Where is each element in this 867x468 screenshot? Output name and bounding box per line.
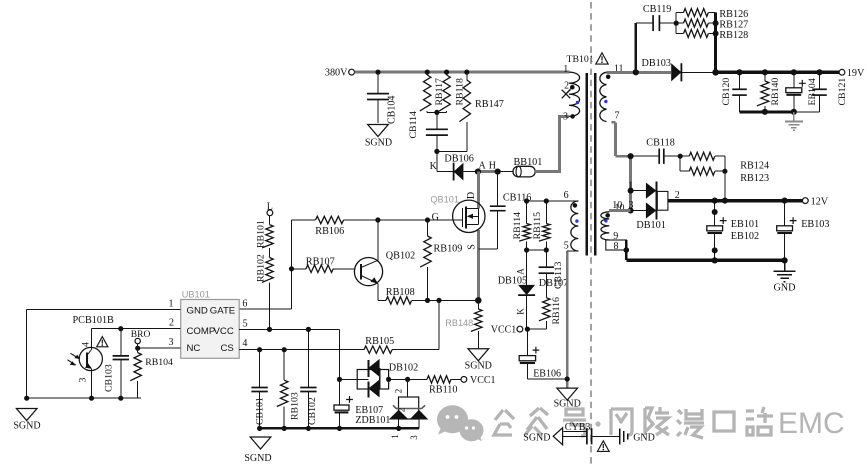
wire: CS sense down-left [438, 300, 440, 349]
svg-text:A: A [516, 268, 526, 275]
resistor RB117 [420, 72, 445, 112]
svg-text:RB103: RB103 [290, 392, 301, 420]
svg-text:CB121: CB121 [837, 78, 848, 106]
svg-text:3: 3 [169, 337, 174, 348]
node: trunk dots [713, 20, 719, 26]
node: rail junction RB147 [464, 70, 469, 75]
warning symbol (Y-cap) [598, 441, 610, 452]
optocoupler PCB101B [68, 315, 115, 398]
svg-text:DB101: DB101 [636, 220, 665, 231]
svg-text:SGND: SGND [554, 398, 581, 409]
node: QB102 collector on gate row [375, 217, 380, 222]
inductor bead BB101 [498, 157, 543, 177]
svg-text:RB115: RB115 [532, 212, 543, 240]
wire: RB117/RB118 bottoms joined [427, 111, 446, 113]
resistor RB126 [676, 9, 748, 34]
svg-text:RB126: RB126 [719, 9, 748, 20]
wire: pin3 NC [138, 347, 181, 349]
node: RB107 tap [289, 266, 294, 271]
node: startup chain on VCC [267, 327, 272, 332]
watermark wechat icon [437, 405, 483, 441]
capacitor EB104 (electrolytic) [786, 72, 818, 112]
TB101 aux winding pins 6-5 [564, 190, 579, 252]
resistor RB108 [378, 287, 428, 304]
svg-text:K: K [516, 308, 526, 315]
svg-text:6: 6 [242, 299, 247, 310]
svg-text:RB105: RB105 [365, 336, 394, 347]
capacitor CB121 [812, 72, 848, 112]
ground (earth, 12V side) + GND label [773, 260, 795, 293]
capacitor CB119 [636, 4, 676, 31]
ground (earth sideways) + GND label [620, 429, 655, 445]
svg-text:7: 7 [615, 111, 620, 122]
380V input terminal [325, 68, 355, 79]
wire: pin1 GND to SGND [27, 309, 181, 311]
capacitor CB101 [251, 350, 267, 429]
node: RB109 top on gate row [425, 217, 430, 222]
svg-text:SGND: SGND [365, 137, 392, 148]
node: rail taps [736, 69, 742, 75]
svg-text:BRO: BRO [131, 330, 151, 340]
svg-text:RB118: RB118 [454, 78, 465, 106]
node H [495, 169, 501, 175]
wire: pin11 to DB103 (gray) [607, 71, 672, 74]
node: RB124/123 left [678, 154, 683, 159]
svg-text:4: 4 [242, 338, 247, 349]
VCC1 terminal (UB101 supply) [491, 324, 523, 335]
wire: CB119 branch vertical [635, 23, 637, 72]
node: CB102 tap on VCC [306, 327, 311, 332]
resistor RB127 [676, 19, 748, 30]
capacitor CB116 [478, 172, 531, 250]
svg-text:RB140: RB140 [770, 78, 781, 106]
capacitor EB101/EB102 (electrolytic) [707, 201, 759, 261]
node: CB119 tap [633, 69, 639, 75]
ground SGND (below CB104) [365, 125, 392, 149]
wire: UB101 pin6 GATE to trunk [239, 308, 291, 310]
svg-text:RB147: RB147 [475, 99, 504, 110]
warning symbol (optocoupler) [97, 337, 108, 347]
svg-text:EB103: EB103 [801, 219, 829, 230]
BRO terminal [131, 330, 151, 348]
wire: pin5 VCC row [239, 328, 339, 330]
resistor RB107 [292, 256, 356, 272]
svg-text:2: 2 [564, 80, 569, 91]
L terminal [267, 202, 273, 216]
svg-text:GATE: GATE [210, 305, 235, 316]
wire: gate row [292, 219, 316, 221]
resistor RB104 [130, 348, 173, 398]
svg-text:1: 1 [563, 64, 568, 75]
resistor RB105 [364, 336, 394, 353]
svg-text:CB104: CB104 [387, 96, 398, 124]
svg-text:DB105: DB105 [498, 276, 527, 287]
svg-text:DB103: DB103 [642, 58, 671, 69]
node: DB102 output [386, 377, 391, 382]
wire: snubber to 12V rail [724, 171, 726, 200]
capacitor CYB3 [563, 422, 620, 444]
node: snubber junction [434, 149, 439, 154]
svg-text:BB101: BB101 [514, 157, 543, 168]
19V terminal [839, 68, 865, 79]
node: EB107/DB102 branch [337, 377, 342, 382]
svg-text:RB104: RB104 [145, 357, 173, 368]
capacitor CB114 [408, 111, 448, 151]
svg-text:SGND: SGND [465, 361, 492, 372]
node: pin3/pin10 arm [628, 208, 634, 214]
wire: primary small-signal ground rail [27, 397, 141, 399]
svg-text:GND: GND [187, 305, 208, 316]
svg-text:RB106: RB106 [315, 226, 344, 237]
capacitor CB120 [721, 72, 747, 112]
zener ZDB101 (dual, box) [389, 379, 429, 439]
resistor RB128 [676, 30, 748, 42]
node: RB117/118 mid [434, 110, 439, 115]
wire: 19V bottom rail [740, 110, 795, 113]
TB101 primary winding pins 1-3 [562, 64, 580, 123]
svg-text:D: D [466, 192, 477, 199]
resistor RB110 [427, 376, 461, 396]
svg-text:SGND: SGND [244, 453, 271, 464]
node A (drain) [475, 169, 481, 175]
wire: 380V top rail [355, 71, 570, 74]
capacitor CB102 [300, 329, 318, 428]
node: CB103 tap [118, 326, 123, 331]
svg-text:RB123: RB123 [740, 173, 769, 184]
svg-text:SGND: SGND [13, 421, 40, 432]
wire: pins 8/9 to GND rail [625, 240, 628, 260]
wire: pin5 aux down (gray) [566, 251, 568, 388]
diode DB101 (dual common-cathode) [612, 180, 680, 231]
svg-text:2: 2 [394, 389, 404, 394]
warning symbol (transformer) [596, 53, 608, 64]
svg-text:3: 3 [409, 435, 419, 440]
node: source/RB148 junction [475, 297, 482, 304]
ground (earth, 19V side) [785, 112, 803, 131]
resistor RB101 [256, 216, 274, 248]
svg-text:DB106: DB106 [444, 153, 473, 164]
wire: QB101 source down (thick gray) [477, 230, 480, 300]
resistor RB124 [680, 152, 769, 171]
svg-text:2: 2 [397, 408, 407, 413]
resistor RB147 [459, 72, 503, 151]
svg-text:CB113: CB113 [553, 261, 564, 289]
svg-text:1: 1 [390, 434, 400, 439]
node: DB105 branch [524, 247, 529, 252]
svg-text:S: S [466, 244, 477, 250]
svg-text:RB107: RB107 [306, 256, 335, 267]
svg-text:EB101: EB101 [731, 219, 759, 230]
capacitor CB104 [367, 72, 398, 124]
svg-text:UB101: UB101 [182, 289, 210, 299]
node: bottom rail dots [762, 109, 768, 115]
svg-text:RB101: RB101 [256, 220, 267, 248]
ground SGND (CB101 rail) [244, 437, 271, 464]
resistor RB103 [277, 350, 301, 429]
svg-text:NC: NC [187, 343, 201, 354]
TB101 secondary winding pins 11-7 [600, 64, 624, 122]
wire: emitter row to source [428, 299, 479, 301]
node: RB103 tap [282, 347, 287, 352]
ground SGND (RB148) [465, 349, 492, 372]
svg-text:8: 8 [614, 241, 619, 252]
transistor QB101 (power MOSFET) [430, 192, 485, 250]
svg-text:RB108: RB108 [386, 287, 415, 298]
svg-text:CB120: CB120 [721, 78, 732, 106]
capacitor EB107 (electrolytic) [334, 379, 353, 428]
node: GND rail dots [712, 257, 718, 263]
svg-text:GND: GND [773, 283, 795, 294]
capacitor CB103 [104, 329, 130, 401]
resistor RB116 [527, 297, 561, 329]
svg-text:CB101: CB101 [255, 397, 266, 425]
ground SGND (UB101) [13, 396, 40, 432]
wire: RB114/115 bottoms [527, 249, 547, 251]
resistor RB115 [532, 201, 550, 250]
svg-text:QB102: QB102 [386, 251, 415, 262]
svg-text:CS: CS [220, 343, 233, 354]
svg-text:DB102: DB102 [389, 362, 418, 373]
wire: drain down to QB101 (thick gray) [477, 172, 480, 209]
ground SGND (sideways, CYB3) [523, 428, 562, 445]
svg-text:6: 6 [564, 190, 569, 201]
svg-text:1: 1 [169, 299, 174, 310]
resistor RB102 [256, 248, 274, 329]
node: DB103/trunk junction [712, 69, 719, 76]
capacitor CB118 [631, 137, 681, 164]
svg-text:COMP: COMP [187, 326, 216, 337]
svg-text:PCB101B: PCB101B [73, 315, 115, 326]
svg-text:VCC: VCC [214, 326, 234, 337]
node: VCC1/EB106 [525, 327, 530, 332]
wire: 12V rail (thick) [668, 199, 803, 202]
node: CB118 tap [628, 153, 634, 159]
wire: primary power ground rail [260, 427, 419, 430]
VCC1 terminal (RB110) [461, 375, 496, 386]
wire: drain node A to H (thick gray) [478, 170, 498, 173]
svg-text:12V: 12V [811, 196, 829, 207]
wire: RB pack right trunk (thick) [714, 13, 717, 73]
node: pin1 arm [628, 188, 634, 194]
svg-text:RB116: RB116 [551, 297, 562, 325]
svg-text:RB110: RB110 [429, 384, 458, 395]
svg-text:5: 5 [243, 318, 248, 329]
svg-text:ZDB101: ZDB101 [355, 415, 390, 426]
svg-text:19V: 19V [847, 68, 865, 79]
wire: pin6 stub [527, 200, 579, 202]
node: RB108/RB109 junction [425, 298, 430, 303]
svg-text:H: H [489, 161, 496, 172]
svg-text:CB103: CB103 [104, 364, 115, 392]
diode DB103 [642, 58, 716, 82]
svg-text:VCC1: VCC1 [491, 324, 517, 335]
node: CB113 branch [544, 247, 549, 252]
resistor RB140 [757, 72, 781, 112]
svg-text:RB114: RB114 [512, 212, 523, 240]
svg-text:CB102: CB102 [307, 397, 318, 425]
svg-text:RB109: RB109 [434, 244, 463, 255]
svg-text:QB101: QB101 [430, 194, 459, 204]
svg-text:RB124: RB124 [740, 161, 769, 172]
svg-text:EMC: EMC [778, 407, 845, 440]
resistor RB106 [315, 216, 344, 237]
node: rail junction RB117 [425, 70, 430, 75]
node: BRO/RB104 [135, 346, 140, 351]
node: rail junction CB104 [375, 70, 380, 75]
svg-text:RB148: RB148 [445, 318, 473, 328]
node: CB101 tap [257, 347, 262, 352]
svg-text:EB106: EB106 [533, 369, 561, 380]
node: RB114 top [524, 198, 529, 203]
svg-text:RB102: RB102 [256, 254, 267, 282]
resistor RB114 [512, 201, 530, 250]
svg-text:G: G [432, 212, 439, 223]
svg-text:5: 5 [564, 240, 569, 251]
capacitor EB106 (electrolytic) [519, 329, 567, 379]
svg-text:EB102: EB102 [731, 231, 759, 242]
svg-text:380V: 380V [325, 68, 348, 79]
node: RB115 top [544, 198, 549, 203]
wire: GND rail (thick) [626, 259, 784, 262]
node: EB106/SGND [565, 376, 570, 381]
wire: CB114/RB147 junction to DB106 cathode [437, 150, 467, 152]
node: RB126/7/8 left [674, 21, 679, 26]
svg-text:3: 3 [79, 377, 89, 382]
svg-text:SGND: SGND [523, 433, 550, 444]
wire: pin7 trunk down (gray) [612, 121, 616, 124]
node: 12V rail taps [712, 198, 718, 204]
node: rail dots [257, 426, 262, 431]
wire: pin10 stub (gray) [609, 209, 631, 212]
svg-text:4: 4 [82, 342, 92, 347]
svg-text:RB128: RB128 [719, 30, 748, 41]
diode DB102 (dual, box) [340, 359, 428, 398]
transformer core bars [586, 73, 589, 256]
transistor QB102 [354, 220, 415, 300]
op-amp U1: PWM controller UB101 [169, 289, 248, 358]
diode DB105 [498, 250, 535, 329]
diode DB106 [430, 153, 496, 180]
node: RB123 right [722, 169, 727, 174]
svg-text:CB114: CB114 [408, 111, 419, 139]
isolation barrier dashed line [590, 2, 592, 464]
wire: pin4 CS row [239, 349, 364, 351]
capacitor CB113 [539, 250, 564, 298]
ground SGND (aux) [554, 388, 581, 409]
svg-text:GND: GND [633, 432, 655, 443]
resistor RB123 [680, 156, 769, 184]
node: rail junction RB118 [444, 70, 449, 75]
svg-text:2: 2 [169, 317, 174, 328]
svg-text:TB101: TB101 [567, 54, 594, 65]
node: opto emitter on ground rail [89, 396, 94, 401]
svg-text:K: K [430, 161, 438, 172]
resistor RB109 [420, 220, 462, 300]
12V terminal [802, 196, 828, 207]
svg-text:RB127: RB127 [719, 20, 748, 31]
wire: 19V rail (thick) [716, 71, 840, 74]
svg-text:VCC1: VCC1 [470, 375, 496, 386]
svg-text:3: 3 [563, 112, 568, 123]
node: ZDB101 tap [405, 377, 410, 382]
wire: pin2 COMP to opto collector [92, 328, 181, 330]
capacitor EB103 (electrolytic) [777, 201, 830, 261]
svg-text:CB119: CB119 [643, 4, 672, 15]
TB101 winding pins 10-9 (pin 8 box) [601, 203, 627, 252]
resistor RB148 [445, 300, 482, 348]
wire: BB101 to TB101 pin 3 (thick gray) [535, 170, 559, 173]
watermark text [494, 407, 773, 438]
resistor RB118 [439, 72, 465, 112]
svg-text:EB104: EB104 [807, 78, 818, 105]
node: CS tap [436, 298, 441, 303]
svg-text:CB118: CB118 [646, 137, 675, 148]
